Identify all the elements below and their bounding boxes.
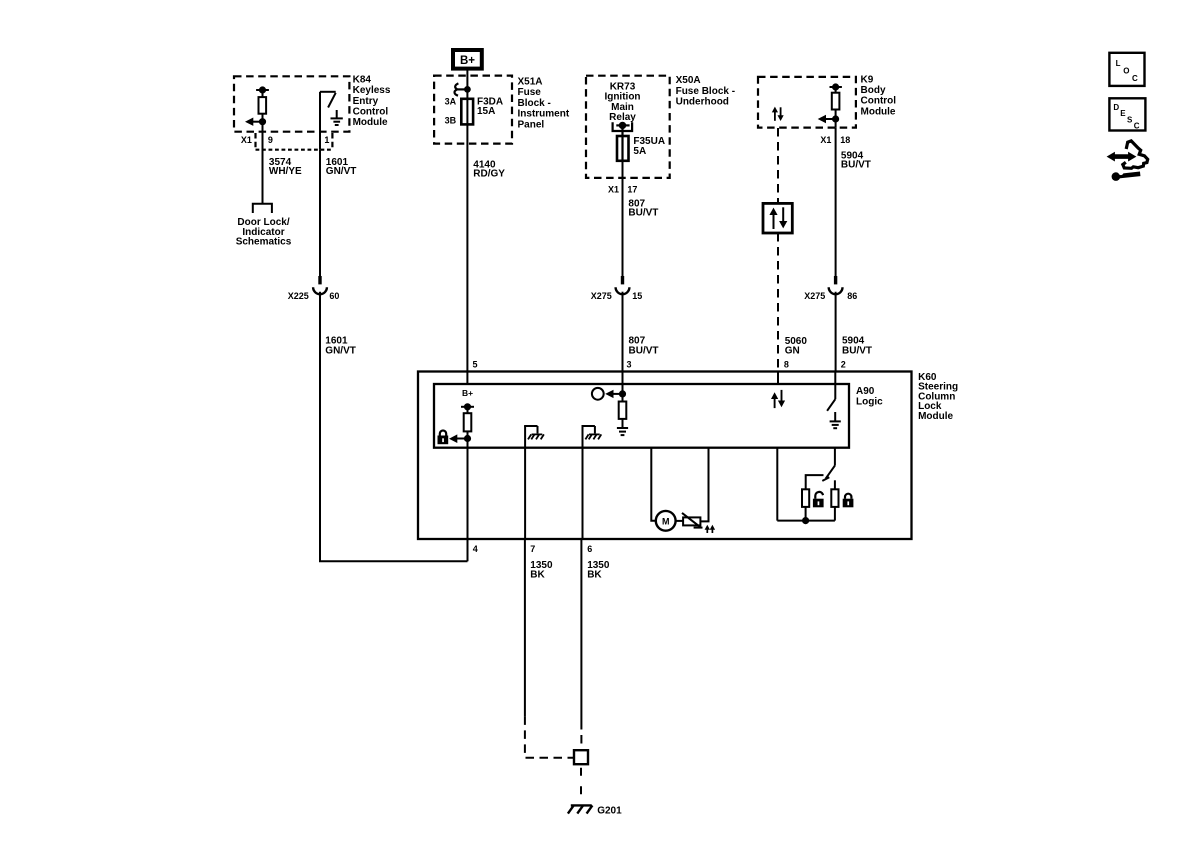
wire 4140 RD/GY to K60 pin 5 <box>466 124 468 371</box>
wrench of navigation icon <box>1112 170 1141 181</box>
svg-text:3A: 3A <box>445 96 457 106</box>
motor feed wires from A90 <box>651 448 708 522</box>
K60 module label <box>918 372 958 422</box>
motor M <box>656 511 683 531</box>
connector X275 inline symbol pin 86 <box>829 276 843 294</box>
svg-text:3B: 3B <box>445 116 457 126</box>
svg-text:X51A: X51A <box>518 77 543 88</box>
pin 2 stub into A90 <box>834 372 836 400</box>
pin 5 stub into A90 <box>466 372 468 385</box>
fuse block X50A dashed box <box>586 76 670 178</box>
svg-text:Relay: Relay <box>609 112 636 123</box>
bus bar tap symbol at fuse 3A <box>455 83 470 95</box>
svg-text:9: 9 <box>268 135 273 145</box>
svg-text:L: L <box>1116 59 1121 68</box>
sensor bottom rail with junction <box>777 507 835 523</box>
DESC navigation box <box>1109 98 1145 130</box>
svg-text:3: 3 <box>627 359 632 369</box>
closed lock icon in A90 <box>438 431 449 445</box>
svg-text:Module: Module <box>861 106 896 117</box>
svg-text:BK: BK <box>587 570 602 581</box>
wire label 5904 BU/VT lower <box>842 336 872 357</box>
wire label 1350 BK pin 7 <box>530 560 553 581</box>
svg-text:18: 18 <box>840 135 850 145</box>
battery feed B+ box <box>453 50 482 69</box>
fuse block X51A dashed box <box>434 76 512 144</box>
svg-text:K9: K9 <box>861 75 874 86</box>
svg-text:5: 5 <box>473 359 478 369</box>
svg-text:X1: X1 <box>608 185 619 195</box>
svg-text:D: D <box>1113 103 1119 112</box>
wire B+ into fuse block <box>466 69 468 125</box>
label Door Lock/Indicator Schematics <box>236 217 292 248</box>
resistor unlock branch <box>802 489 809 507</box>
svg-text:Panel: Panel <box>518 119 545 130</box>
wire 3574 WH/YE <box>262 132 264 204</box>
double headed arrow of navigation icon <box>1107 152 1137 162</box>
vehicle navigation icon outline <box>1123 141 1148 168</box>
svg-text:15A: 15A <box>477 106 495 117</box>
thermal protector (PTC) <box>682 513 703 528</box>
fuse F35UA 5A <box>617 136 629 161</box>
fuse value label F35UA 5A <box>633 136 665 157</box>
svg-text:WH/YE: WH/YE <box>269 166 302 177</box>
svg-text:7: 7 <box>530 544 535 554</box>
wire label 3574 WH/YE <box>269 157 302 177</box>
K60 top pin numbers 5 3 8 2 <box>473 359 846 369</box>
pin 3 stub into A90 <box>622 372 624 394</box>
svg-text:5A: 5A <box>633 146 646 157</box>
svg-text:Block -: Block - <box>518 98 551 109</box>
wire label 1601 GN/VT lower <box>325 336 356 357</box>
connector X275 labels pin 15 <box>591 291 643 301</box>
dashed wire pin 7 to splice <box>525 716 574 757</box>
switch left contact rail <box>806 475 824 489</box>
connector X225 inline symbol <box>313 276 327 294</box>
wire label 1350 BK pin 6 <box>587 560 610 581</box>
wire pin 7 from chassis ground down <box>524 448 526 540</box>
connector X225 labels pin 60 <box>288 291 340 301</box>
closed lock icon <box>843 494 854 508</box>
svg-text:Module: Module <box>918 411 953 422</box>
resistor element in K9 <box>832 93 840 110</box>
switch right branch stub <box>834 480 836 489</box>
svg-text:X50A: X50A <box>676 75 701 86</box>
signal ground in K84 <box>331 110 343 125</box>
wire 1601 GN/VT lower segment to K60 pin 4 <box>320 292 468 562</box>
dashed serial data wire from K9 to data box <box>777 128 779 203</box>
svg-text:S: S <box>1127 115 1133 124</box>
svg-text:B+: B+ <box>460 55 475 67</box>
svg-text:B+: B+ <box>462 388 473 398</box>
svg-text:X275: X275 <box>591 291 612 301</box>
X51A fuse block label <box>518 77 570 131</box>
switch at pin 2 inside A90 <box>827 399 835 411</box>
pin 8 stub into A90 <box>777 372 779 386</box>
svg-text:1: 1 <box>324 135 329 145</box>
off-page pointer to Door Lock/Indicator Schematics <box>253 204 272 213</box>
internal B+ supply bar in A90 <box>461 404 474 413</box>
svg-text:C: C <box>1132 74 1138 83</box>
svg-text:X225: X225 <box>288 291 309 301</box>
double up arrows beside thermal protector <box>705 525 716 533</box>
svg-text:GN/VT: GN/VT <box>325 345 356 356</box>
svg-text:15: 15 <box>632 291 642 301</box>
module K9 Body Control Module dashed box <box>758 77 856 128</box>
svg-text:86: 86 <box>847 291 857 301</box>
wire 1350 BK from pin 6 solid <box>580 539 582 721</box>
svg-text:Fuse Block -: Fuse Block - <box>676 86 735 97</box>
resistor below pin 3 junction <box>619 394 627 428</box>
chassis ground symbol left (pin 7 net) <box>524 426 544 448</box>
svg-text:17: 17 <box>627 185 637 195</box>
svg-text:BU/VT: BU/VT <box>842 345 872 356</box>
svg-text:Schematics: Schematics <box>236 237 292 248</box>
resistor lock branch <box>831 489 838 507</box>
junction node with left arrow to lock icon <box>449 431 470 447</box>
svg-text:Logic: Logic <box>856 396 883 407</box>
svg-text:RD/GY: RD/GY <box>473 169 505 180</box>
fuse cavity labels 3A / 3B <box>445 96 457 125</box>
dashed wire 5060 GN from data box to K60 pin 8 <box>777 233 779 372</box>
svg-text:BK: BK <box>530 570 545 581</box>
svg-text:X1: X1 <box>241 135 252 145</box>
module K84 Keyless Entry Control Module dashed box <box>234 76 349 131</box>
serial data communication box <box>763 203 792 233</box>
svg-text:Entry: Entry <box>353 96 379 107</box>
svg-text:G201: G201 <box>597 806 622 817</box>
svg-text:Body: Body <box>861 85 886 96</box>
wire from A90 junction down to K60 pin 4 and out <box>467 448 469 562</box>
dashed wire splice to ground <box>580 768 582 795</box>
junction node with left arrow in K9 <box>818 110 839 128</box>
K84 module label <box>353 75 391 128</box>
module K60 Steering Column Lock Module box <box>418 372 912 540</box>
svg-text:C: C <box>1134 122 1140 131</box>
switch in K84 <box>320 92 336 150</box>
connector X1 label and pin 17 <box>608 185 637 195</box>
svg-text:Underhood: Underhood <box>676 96 729 107</box>
wire label 1601 GN/VT upper <box>326 157 357 177</box>
svg-text:4: 4 <box>473 544 478 554</box>
resistor element in A90 (lock driver) <box>464 413 472 431</box>
svg-text:6: 6 <box>587 544 592 554</box>
connector X1 label and pins 9 / 1 <box>241 135 330 145</box>
lock position sensor right wire with switch <box>822 448 835 481</box>
wire 5904 BU/VT lower to K60 pin 2 <box>835 292 837 372</box>
svg-text:BU/VT: BU/VT <box>629 345 659 356</box>
wire label 5904 BU/VT upper <box>841 150 871 170</box>
svg-text:BU/VT: BU/VT <box>628 208 658 219</box>
svg-text:Instrument: Instrument <box>518 109 570 120</box>
X50A fuse block label <box>676 75 735 107</box>
svg-text:8: 8 <box>784 359 789 369</box>
wire 1601 GN/VT upper segment <box>319 150 321 276</box>
wire 807 BU/VT upper <box>622 161 624 276</box>
relay KR73 output bracket <box>613 122 633 161</box>
wire label 4140 RD/GY <box>473 159 505 179</box>
splice junction box <box>574 750 588 764</box>
connector X275 inline symbol pin 15 <box>616 276 630 294</box>
fuse F3DA 15A <box>461 99 473 125</box>
wire 5904 BU/VT upper <box>835 128 837 276</box>
svg-text:2: 2 <box>841 359 846 369</box>
relay KR73 Ignition Main Relay label <box>604 81 640 123</box>
serial data arrows inside A90 <box>771 390 785 408</box>
svg-text:X275: X275 <box>804 291 825 301</box>
dashed wire pin 6 to splice <box>580 721 582 750</box>
svg-text:Control: Control <box>353 106 389 117</box>
wire 807 BU/VT lower to K60 pin 3 <box>622 292 624 372</box>
junction node with left arrow in K84 <box>245 118 265 126</box>
svg-text:Module: Module <box>353 117 388 128</box>
svg-text:E: E <box>1120 109 1126 118</box>
svg-text:BU/VT: BU/VT <box>841 160 871 171</box>
signal ground below pin 2 switch <box>830 412 841 428</box>
svg-text:M: M <box>662 516 670 526</box>
svg-text:X1: X1 <box>820 135 831 145</box>
connector X275 labels pin 86 <box>804 291 857 301</box>
connector X1 label and pin 18 <box>820 135 850 145</box>
chassis ground symbol right (pin 6 net) <box>582 426 602 448</box>
serial data arrows inside box <box>769 207 787 229</box>
wire pin 6 from chassis ground down <box>582 448 584 540</box>
svg-text:Fuse: Fuse <box>518 87 542 98</box>
driver output element in K84 (supply bar) <box>256 87 269 97</box>
fuse value label F3DA 15A <box>477 97 503 118</box>
A90 Logic label <box>856 386 883 407</box>
K9 module label <box>861 75 897 118</box>
wire label 807 BU/VT upper <box>628 198 658 218</box>
wire 1350 BK from pin 7 solid <box>524 539 526 716</box>
resistor element in K84 <box>259 97 267 114</box>
svg-text:Keyless: Keyless <box>353 85 391 96</box>
lock position sensor left wire <box>776 448 778 521</box>
wire label 5060 GN <box>785 336 808 356</box>
svg-text:Control: Control <box>861 96 897 107</box>
svg-text:60: 60 <box>329 291 339 301</box>
LOC navigation box <box>1109 53 1144 86</box>
open lock icon <box>813 492 824 507</box>
svg-text:O: O <box>1123 66 1129 75</box>
svg-text:GN: GN <box>785 345 800 356</box>
indicator circle with arrow at pin 3 <box>592 388 625 400</box>
logic block A90 box <box>434 384 849 448</box>
serial data arrows inside K9 <box>772 107 784 121</box>
wire label 807 BU/VT lower <box>629 336 659 357</box>
driver output element in K9 (supply bar) <box>830 84 842 92</box>
K60 bottom pin numbers 4 7 6 <box>473 544 593 554</box>
signal ground below pin 3 resistor <box>617 428 628 435</box>
wire resistor to junction <box>262 114 264 132</box>
chassis ground G201 symbol <box>568 805 593 813</box>
svg-text:GN/VT: GN/VT <box>326 166 357 177</box>
connector X1 of K84 dashed box <box>256 133 333 150</box>
svg-text:K84: K84 <box>353 75 372 86</box>
